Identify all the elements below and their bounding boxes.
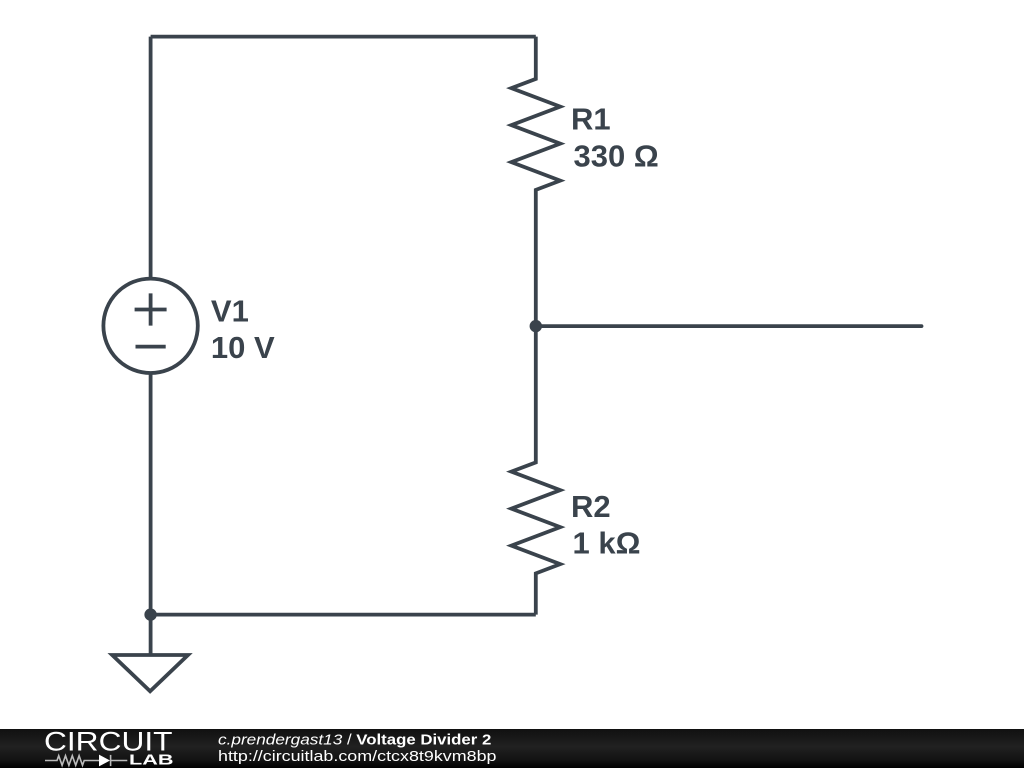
svg-text:V1: V1: [211, 293, 249, 328]
resistor R2: [511, 326, 560, 614]
ground symbol: [112, 655, 188, 691]
logo diode triangle: [99, 755, 110, 767]
svg-text:R2: R2: [571, 489, 611, 524]
svg-text:330 Ω: 330 Ω: [574, 138, 659, 173]
resistor R1: [511, 37, 560, 327]
wire: bottom horizontal from ground node to R2: [151, 613, 536, 617]
wire: left rail from V1 top to top-left corner: [149, 37, 153, 278]
footer bar: [0, 729, 1024, 768]
V1 plus sign: [135, 293, 167, 325]
wire: output from node A to right edge: [536, 324, 922, 328]
wire: top horizontal from left rail to R1: [151, 35, 536, 39]
logo resistor-diode glyph: [45, 755, 127, 766]
svg-text:R1: R1: [571, 101, 611, 136]
svg-text:http://circuitlab.com/ctcx8t9k: http://circuitlab.com/ctcx8t9kvm8bp: [218, 748, 497, 765]
voltage source V1 body: [103, 279, 197, 373]
svg-text:10 V: 10 V: [211, 330, 275, 365]
svg-text:c.prendergast13 / Voltage Divi: c.prendergast13 / Voltage Divider 2: [218, 732, 491, 749]
V1 minus sign: [136, 345, 166, 349]
svg-text:LAB: LAB: [129, 752, 174, 768]
wire: ground stem: [149, 615, 153, 655]
node A junction dot: [530, 320, 542, 332]
ground node junction dot: [144, 608, 156, 620]
wire: V1 bottom lead to bottom rail: [149, 373, 153, 615]
svg-text:1 kΩ: 1 kΩ: [573, 525, 641, 560]
